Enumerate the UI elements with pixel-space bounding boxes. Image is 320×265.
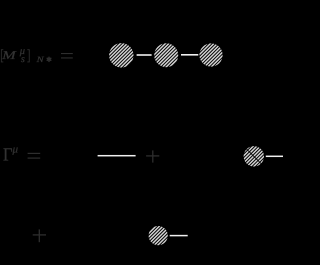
plus sign row 2 (vertical bar) [152, 150, 153, 162]
svg-text:Γ: Γ [3, 146, 13, 166]
label [M^mu_s]_{N*} : left bracket (drawn) [1, 49, 3, 62]
hatched blob 5 (row 3) [149, 226, 168, 245]
svg-text:N: N [35, 55, 44, 64]
propagator line between blob 1 and blob 2 [137, 54, 152, 56]
dark diagonal line through blob 4 [247, 149, 262, 164]
svg-text:M: M [1, 48, 18, 62]
hatched blob 2 (row 1 middle) [154, 43, 178, 67]
right bracket (drawn) [27, 49, 29, 62]
plus sign row 3 (vertical bar) [39, 229, 40, 242]
equals sign row 1 (top bar) [61, 53, 73, 54]
plus sign row 2 (horizontal bar) [146, 155, 159, 156]
equals sign row 1 (bottom bar) [61, 57, 73, 58]
bare vertex line (row 2 first term) [98, 155, 136, 157]
plus sign row 3 (horizontal bar) [33, 234, 46, 235]
propagator line right of blob 5 [170, 235, 188, 237]
hatched blob 3 (row 1 right) [199, 43, 222, 66]
svg-text:s: s [21, 54, 25, 65]
equals sign row 2 (top bar) [28, 153, 41, 154]
hatched blob 4 (dressed vertex, row 2) [244, 146, 264, 166]
propagator line between blob 2 and blob 3 [181, 54, 198, 56]
equals sign row 2 (bottom bar) [28, 158, 41, 159]
svg-text:μ: μ [12, 143, 19, 155]
propagator line right of blob 4 [266, 156, 283, 158]
hatched blob 1 (dressed propagator, row 1 left) [109, 43, 133, 67]
subscript star [47, 57, 51, 61]
